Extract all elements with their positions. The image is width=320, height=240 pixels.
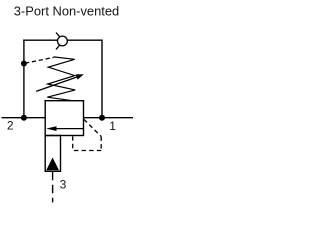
adjustment arrow through spring xyxy=(36,74,84,91)
wire: right vertical line xyxy=(101,40,103,118)
wire: port 1 horizontal line xyxy=(84,117,134,119)
svg-text:1: 1 xyxy=(109,119,116,133)
port 3 tube below valve body xyxy=(45,136,60,172)
junction dot (pilot tap on left branch) xyxy=(21,61,27,67)
svg-text:3-Port Non-vented: 3-Port Non-vented xyxy=(14,4,120,19)
valve body U1 (main stage box) xyxy=(45,101,83,136)
pilot line (dashed) diagonal from port 1 to drain loop xyxy=(84,119,101,136)
wire: port 2 horizontal line xyxy=(2,117,46,119)
wire: left vertical line xyxy=(23,40,25,118)
check valve CV seat xyxy=(56,33,63,50)
svg-text:2: 2 xyxy=(7,119,14,133)
port 3 flow triangle xyxy=(46,158,59,171)
pilot line (dashed) to spring xyxy=(25,57,54,63)
flow path arrow inside valve body xyxy=(46,126,83,131)
wire: top horizontal line xyxy=(23,39,102,41)
pilot drain line (dashed) up to valve body xyxy=(72,136,74,150)
pilot drain line (dashed) right vertical xyxy=(100,137,102,151)
check valve CV ball xyxy=(58,36,68,46)
wire: port 3 dashed stem xyxy=(52,172,54,203)
pilot drain line (dashed) bottom horizontal xyxy=(73,150,102,152)
junction dot port 1 node xyxy=(99,115,105,121)
svg-text:3: 3 xyxy=(60,177,67,191)
junction dot port 2 node xyxy=(21,115,27,121)
spring xyxy=(47,57,75,101)
